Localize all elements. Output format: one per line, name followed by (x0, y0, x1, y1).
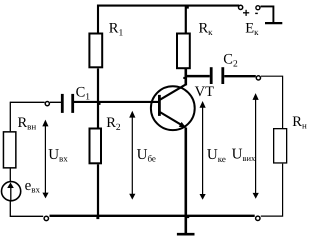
arrow U_vx (42, 120, 68, 199)
wire base line C1 to transistor base (74, 101, 161, 103)
wire Rn bottom loop (261, 164, 283, 217)
transistor VT (151, 84, 214, 130)
wire Rvn to source (9, 169, 11, 184)
wire collector to C2 (186, 75, 210, 78)
terminal output bottom (256, 216, 260, 220)
wire bottom rail (50, 215, 255, 217)
arrow U_vyh (232, 93, 259, 199)
node top rail Rk dot (187, 6, 189, 8)
ground (177, 233, 195, 236)
node R2 bottom dot (96, 217, 99, 219)
terminal Ek plus (239, 5, 243, 9)
arrow U_ke (200, 101, 226, 200)
resistor Rk (177, 21, 213, 68)
capacitor C1 (62, 85, 90, 113)
resistor Rvn (3, 115, 36, 168)
resistor R2 (90, 115, 121, 163)
wire R1 bottom to base node to R2 (97, 69, 99, 128)
node C2 branch dot (183, 77, 185, 79)
terminal Ek minus (256, 6, 260, 10)
resistor R1 (89, 20, 123, 67)
wire input top lead (10, 101, 44, 103)
arrow U_be (129, 111, 156, 200)
wire top rail (98, 6, 239, 33)
battery Ek (245, 6, 282, 37)
svg-text:VT: VT (195, 84, 214, 100)
wire collector column from rail to Rk (185, 6, 187, 33)
wire C2 to output terminal (224, 75, 256, 77)
terminal input top (45, 102, 49, 106)
wire collector column Rk to transistor (185, 69, 188, 85)
wire output loop right (261, 76, 283, 128)
resistor Rn (274, 114, 307, 163)
terminal output top (256, 76, 260, 80)
wire left column bottom + bottom lead (10, 201, 43, 216)
wire emitter column (185, 128, 188, 234)
node base junction dot (98, 102, 101, 105)
source e_vx (2, 178, 41, 201)
wire left column top (9, 102, 11, 132)
capacitor C2 (211, 51, 238, 84)
terminal input bottom (44, 216, 48, 220)
label plus (243, 10, 249, 16)
wire R2 bottom to rail (97, 164, 99, 216)
node emitter rail dot (187, 216, 189, 218)
label minus (255, 12, 258, 14)
wire terminal to C1 (50, 101, 61, 103)
